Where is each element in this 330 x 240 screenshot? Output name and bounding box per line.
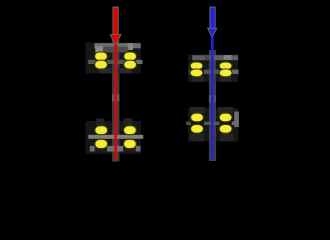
slab highlight segment, right diagram xyxy=(209,95,216,102)
mid stick center, left top group xyxy=(107,60,125,64)
right gray column, right bottom group xyxy=(234,112,239,128)
under-lobe dark stub left, left bottom group xyxy=(95,149,107,152)
below-lobe stub left, left top group xyxy=(99,68,111,73)
top stick bright right segment, left top group xyxy=(128,43,134,50)
top stick dark center, left top group xyxy=(103,47,128,53)
vertical sigma slab, left diagram xyxy=(112,40,119,162)
top stick dark piece near slab, right top group xyxy=(205,55,209,60)
p-orbital lobe, left top group upper-right xyxy=(124,52,137,61)
mid stick left end, right bottom group xyxy=(186,122,191,125)
mid stick center, right bottom group xyxy=(204,122,220,125)
p-orbital lobe, right bottom group lower-left xyxy=(191,125,204,134)
p-orbital lobe, left bottom group lower-right xyxy=(124,139,137,148)
mid stick center, right top group xyxy=(204,70,220,74)
top stick bright left segment, left top group xyxy=(95,47,103,53)
p-orbital lobe, left top group upper-left xyxy=(95,52,108,61)
blue arrow shaft xyxy=(210,8,214,28)
p-orbital lobe, left bottom group upper-left xyxy=(95,126,108,135)
p-orbital lobe, right top group lower-left xyxy=(190,69,203,77)
p-orbital lobe, right bottom group upper-left xyxy=(191,113,204,122)
below-lobe stub right, right top group xyxy=(220,77,232,82)
p-orbital lobe, right top group upper-right xyxy=(219,62,232,70)
above-lobe stub right, left bottom group xyxy=(124,119,133,126)
top stick, left top group xyxy=(94,43,140,48)
blue line xyxy=(211,38,214,160)
top stick bright segment, right top group xyxy=(224,55,232,60)
blue arrow shaft outline xyxy=(210,7,216,28)
red arrow shaft outline xyxy=(113,7,119,35)
below-lobe stub left, right bottom group xyxy=(190,134,204,142)
slab highlight segment, left diagram xyxy=(112,94,119,101)
under-lobe dark stub right, left bottom group xyxy=(124,149,136,152)
vertical sigma slab, right diagram xyxy=(209,50,216,161)
red arrowhead outline xyxy=(110,34,122,46)
mid stick, left bottom group xyxy=(88,135,143,139)
backing panel, right bottom group xyxy=(188,108,238,142)
red arrowhead xyxy=(111,35,120,45)
p-orbital lobe, left bottom group upper-right xyxy=(124,126,137,135)
p-orbital lobe, left top group lower-left xyxy=(95,60,108,69)
bottom stick right end, left bottom group xyxy=(136,146,141,152)
backing panel, right top group xyxy=(188,55,238,83)
above-lobe stub left, left bottom group xyxy=(96,119,104,126)
blue arrowhead outline xyxy=(207,28,217,39)
p-orbital lobe, right bottom group lower-right xyxy=(219,125,232,134)
red arrow shaft xyxy=(113,8,117,35)
below-lobe stub left, right top group xyxy=(192,77,204,82)
below-lobe stub right, left top group xyxy=(118,68,132,73)
p-orbital lobe, left bottom group lower-left xyxy=(95,139,108,148)
mid stick right end, right bottom group xyxy=(232,122,238,125)
backing panel, left top group xyxy=(86,43,141,74)
mid stick left end, left top group xyxy=(88,60,95,64)
p-orbital lobe, left top group lower-right xyxy=(124,60,137,69)
blue arrowhead xyxy=(208,29,216,38)
mid stick right end, left top group xyxy=(136,60,143,64)
below-lobe stub right, right bottom group xyxy=(220,134,234,142)
p-orbital lobe, right bottom group upper-right xyxy=(219,113,232,122)
backing panel, left bottom group xyxy=(86,121,142,154)
top stick, right top group xyxy=(192,55,238,60)
mid stick left end, right top group xyxy=(189,70,193,74)
p-orbital lobe, right top group upper-left xyxy=(190,62,203,70)
above-lobe stub left, right bottom group xyxy=(190,107,205,113)
bottom stick center, left bottom group xyxy=(107,146,123,152)
p-orbital lobe, right top group lower-right xyxy=(219,69,232,77)
red line xyxy=(114,44,117,160)
bottom stick left end, left bottom group xyxy=(90,146,95,152)
above-lobe stub right, right bottom group xyxy=(218,107,233,113)
mid stick right end, right top group xyxy=(232,70,239,74)
